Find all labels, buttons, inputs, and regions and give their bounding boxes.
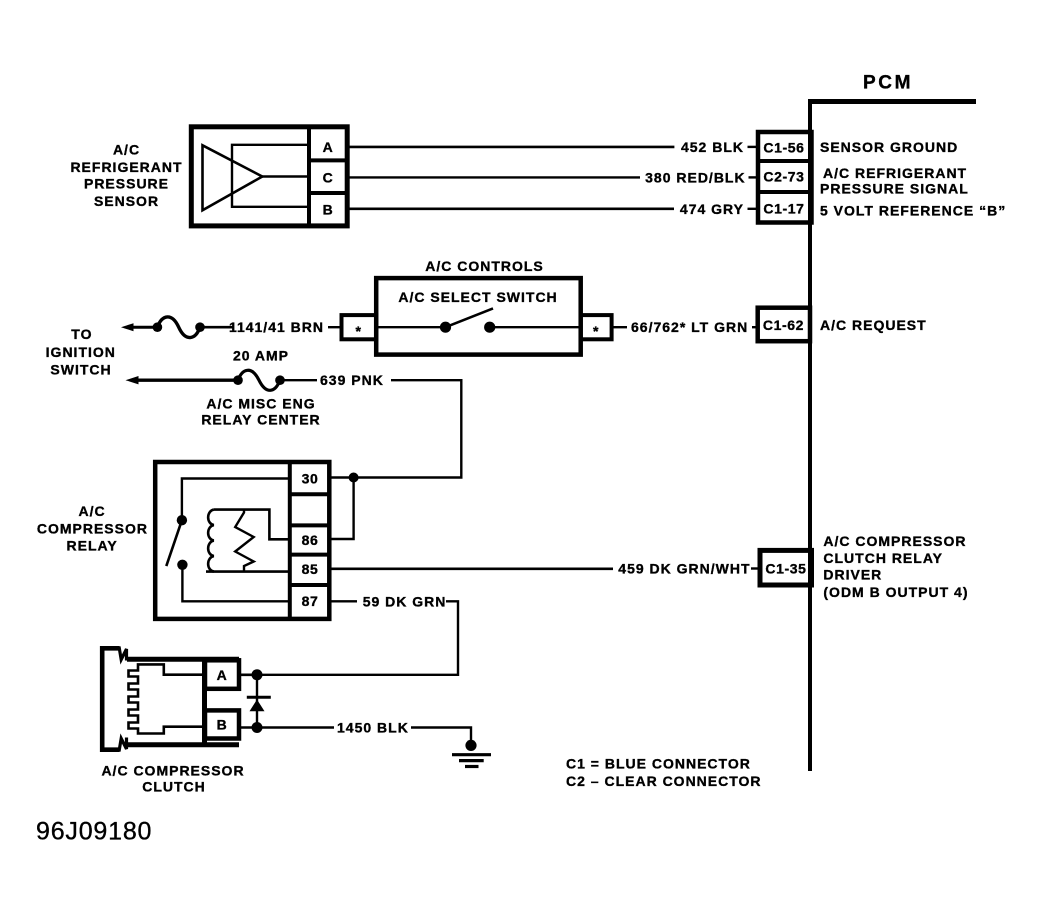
svg-text:C1-35: C1-35 bbox=[765, 561, 806, 577]
diode D1 vertical wire bbox=[256, 675, 258, 728]
wire stub to C1-17 bbox=[748, 208, 759, 210]
svg-text:A/C REFRIGERANT: A/C REFRIGERANT bbox=[823, 165, 967, 181]
svg-text:A/C MISC ENG: A/C MISC ENG bbox=[206, 395, 315, 411]
svg-text:PRESSURE: PRESSURE bbox=[84, 176, 169, 192]
relay pin cell divider d bbox=[290, 583, 329, 587]
svg-text:96J09180: 96J09180 bbox=[36, 818, 152, 846]
svg-text:1450 BLK: 1450 BLK bbox=[337, 720, 409, 736]
right star terminal box bbox=[581, 315, 612, 339]
svg-text:380 RED/BLK: 380 RED/BLK bbox=[645, 169, 745, 185]
fuse F2 squiggle bbox=[238, 370, 280, 390]
A/C refrigerant pressure sensor label bbox=[70, 142, 182, 210]
svg-text:RELAY CENTER: RELAY CENTER bbox=[201, 412, 320, 428]
svg-text:RELAY: RELAY bbox=[67, 538, 118, 554]
wire arrow to ignition switch (row 2) bbox=[126, 376, 139, 384]
switch left contact wire bbox=[376, 326, 445, 328]
svg-text:85: 85 bbox=[302, 561, 319, 577]
svg-text:1141/41 BRN: 1141/41 BRN bbox=[229, 319, 324, 335]
sensor U1 outline box bbox=[191, 127, 347, 226]
wire stub to C1-35 bbox=[751, 567, 760, 569]
wire stub to left star box bbox=[328, 326, 342, 328]
relay coil bottom wire to pin 85 bbox=[206, 570, 290, 573]
svg-text:C2-73: C2-73 bbox=[763, 169, 804, 185]
wire from arrow to fuse F2 bbox=[136, 379, 239, 382]
svg-text:B: B bbox=[217, 717, 228, 733]
svg-text:66/762* LT GRN: 66/762* LT GRN bbox=[631, 319, 748, 335]
relay wire top dot to pin 30 bbox=[182, 479, 290, 521]
svg-text:SWITCH: SWITCH bbox=[50, 361, 111, 377]
svg-text:A: A bbox=[217, 667, 228, 683]
svg-text:B: B bbox=[323, 201, 334, 217]
svg-text:474 GRY: 474 GRY bbox=[680, 201, 744, 217]
clutch connector bottom edge bbox=[127, 742, 239, 747]
svg-text:IGNITION: IGNITION bbox=[46, 344, 116, 360]
sensor pin cell divider A/C bbox=[309, 158, 347, 162]
svg-text:C1-62: C1-62 bbox=[763, 317, 804, 333]
svg-text:CLUTCH: CLUTCH bbox=[142, 779, 206, 795]
PCM top edge line bbox=[808, 99, 976, 104]
sensor pin column divider bbox=[307, 127, 311, 226]
connector C1-35 box bbox=[760, 550, 812, 585]
wire pin B to junction bbox=[239, 726, 257, 729]
svg-text:5 VOLT REFERENCE “B”: 5 VOLT REFERENCE “B” bbox=[820, 203, 1006, 219]
svg-text:A/C SELECT SWITCH: A/C SELECT SWITCH bbox=[398, 289, 557, 305]
svg-text:A/C REQUEST: A/C REQUEST bbox=[820, 317, 927, 333]
fuse F1 squiggle bbox=[157, 317, 200, 338]
svg-text:REFRIGERANT: REFRIGERANT bbox=[70, 159, 182, 175]
fuse F1 right dot bbox=[195, 322, 205, 332]
svg-text:PCM: PCM bbox=[863, 73, 913, 94]
wire 474 GRY (pin B to C1-17) bbox=[347, 208, 674, 211]
svg-text:(ODM B OUTPUT 4): (ODM B OUTPUT 4) bbox=[823, 584, 968, 600]
svg-text:TO: TO bbox=[71, 326, 92, 342]
connector C1-62 box bbox=[758, 308, 810, 342]
wire fuse F1 to label bbox=[200, 326, 233, 329]
svg-text:C1 = BLUE CONNECTOR: C1 = BLUE CONNECTOR bbox=[566, 755, 751, 771]
clutch pin B box bbox=[205, 710, 239, 738]
svg-text:C: C bbox=[323, 169, 334, 185]
relay resistor zigzag bbox=[235, 510, 254, 572]
relay K1 outline box bbox=[155, 462, 329, 619]
ground dot bbox=[465, 740, 476, 751]
svg-text:459 DK GRN/WHT: 459 DK GRN/WHT bbox=[618, 561, 750, 577]
connector column C1/C2 outline bbox=[758, 132, 812, 223]
clutch pin A box bbox=[205, 660, 239, 689]
connector cell divider 2 bbox=[758, 190, 811, 194]
svg-text:COMPRESSOR: COMPRESSOR bbox=[37, 521, 148, 537]
A/C select switch box S1 bbox=[376, 278, 581, 355]
A/C MISC ENG RELAY CENTER label bbox=[201, 395, 320, 427]
wire stub to C1-62 bbox=[752, 326, 758, 328]
switch blade bbox=[446, 308, 494, 327]
svg-text:A: A bbox=[323, 139, 334, 155]
svg-text:C2 – CLEAR CONNECTOR: C2 – CLEAR CONNECTOR bbox=[566, 773, 762, 789]
relay coil top wire to pin 86 bbox=[214, 510, 290, 540]
sensor pin cell divider C/B bbox=[309, 191, 347, 195]
relay pin cell divider a bbox=[290, 492, 329, 496]
wire 459 DK GRN/WHT (pin 85 to C1-35) bbox=[329, 567, 613, 570]
clutch bracket top notch bbox=[119, 647, 127, 661]
wire pin 87 stub bbox=[329, 600, 357, 602]
wire stub to C2-73 bbox=[749, 176, 759, 178]
net label A/C COMPRESSOR CLUTCH RELAY DRIVER bbox=[823, 533, 968, 600]
svg-text:DRIVER: DRIVER bbox=[823, 567, 882, 583]
svg-text:86: 86 bbox=[302, 532, 319, 548]
svg-text:59 DK GRN: 59 DK GRN bbox=[363, 593, 447, 609]
PCM left edge vertical line bbox=[808, 99, 812, 771]
svg-text:30: 30 bbox=[302, 471, 319, 487]
junction dot A bbox=[252, 669, 263, 680]
svg-text:20 AMP: 20 AMP bbox=[233, 347, 289, 363]
net label A/C REFRIGERANT PRESSURE SIGNAL bbox=[820, 165, 969, 197]
svg-text:452 BLK: 452 BLK bbox=[681, 139, 744, 155]
wire fuse F2 to label bbox=[280, 379, 317, 381]
clutch comb contact bbox=[129, 664, 203, 733]
fuse F1 left dot bbox=[153, 322, 163, 332]
clutch pulley bracket bbox=[102, 648, 119, 749]
TO IGNITION SWITCH label bbox=[46, 326, 116, 378]
wire 452 BLK (pin A to C1-56) bbox=[347, 146, 674, 149]
wire arrow to ignition switch (row 1) bbox=[121, 323, 134, 331]
relay wire bottom dot to pin 87 bbox=[182, 565, 289, 602]
wire pin A to junction bbox=[239, 673, 257, 676]
clutch connector divider bbox=[202, 659, 207, 745]
relay pin cell divider b bbox=[290, 523, 329, 527]
sensor internal wire bracket bbox=[232, 145, 309, 207]
svg-text:A/C: A/C bbox=[79, 503, 106, 519]
svg-text:*: * bbox=[355, 323, 361, 339]
svg-text:*: * bbox=[593, 323, 599, 339]
relay coil bbox=[208, 510, 214, 572]
diode D1 cathode bar bbox=[247, 696, 271, 699]
fuse F2 right dot bbox=[275, 375, 285, 385]
A/C compressor clutch label bbox=[101, 762, 244, 794]
relay switch top dot bbox=[177, 515, 187, 525]
svg-text:87: 87 bbox=[302, 593, 319, 609]
svg-text:A/C COMPRESSOR: A/C COMPRESSOR bbox=[101, 762, 244, 778]
svg-text:C1-17: C1-17 bbox=[763, 201, 804, 217]
switch right contact dot bbox=[484, 322, 495, 333]
svg-text:A/C CONTROLS: A/C CONTROLS bbox=[425, 258, 544, 274]
switch right contact wire bbox=[490, 326, 581, 328]
ground symbol G101 bbox=[452, 755, 491, 767]
wire 639 PNK elbow down to relay pin 30 bbox=[354, 380, 462, 477]
wire 59 DK GRN elbow down to clutch bbox=[257, 601, 458, 675]
wire from arrow to fuse F1 bbox=[131, 326, 158, 329]
relay switch bottom dot bbox=[177, 560, 187, 570]
wire B junction to label bbox=[257, 726, 334, 728]
junction dot B bbox=[252, 722, 263, 733]
switch left contact dot bbox=[440, 322, 451, 333]
svg-text:PRESSURE SIGNAL: PRESSURE SIGNAL bbox=[820, 181, 969, 197]
svg-text:SENSOR GROUND: SENSOR GROUND bbox=[820, 139, 958, 155]
wire stub right star to label bbox=[612, 326, 627, 328]
relay pin cell divider c bbox=[290, 553, 329, 557]
junction dot pin30/86 feed bbox=[349, 473, 359, 483]
svg-text:A/C COMPRESSOR: A/C COMPRESSOR bbox=[823, 533, 966, 549]
svg-text:639 PNK: 639 PNK bbox=[320, 372, 384, 388]
diode D1 triangle bbox=[250, 700, 265, 712]
connector cell divider 1 bbox=[758, 159, 811, 163]
svg-text:CLUTCH RELAY: CLUTCH RELAY bbox=[823, 550, 943, 566]
wire junction down to pin 86 bbox=[329, 478, 354, 540]
relay pin column divider bbox=[288, 462, 292, 619]
svg-text:SENSOR: SENSOR bbox=[94, 193, 159, 209]
relay switch blade bbox=[166, 520, 182, 566]
A/C compressor relay label bbox=[37, 503, 148, 553]
wire stub to C1-56 bbox=[748, 146, 759, 148]
clutch connector top edge bbox=[127, 657, 239, 662]
left star terminal box bbox=[342, 315, 377, 339]
wire 380 RED/BLK (pin C to C2-73) bbox=[347, 176, 640, 178]
svg-text:A/C: A/C bbox=[113, 142, 140, 158]
wire pin 30 to junction bbox=[329, 476, 354, 478]
fuse F2 left dot bbox=[233, 375, 243, 385]
svg-text:C1-56: C1-56 bbox=[763, 140, 804, 156]
sensor amplifier triangle bbox=[203, 145, 263, 210]
clutch bracket bottom notch bbox=[119, 738, 127, 752]
wire 1450 BLK to ground bbox=[411, 728, 471, 744]
